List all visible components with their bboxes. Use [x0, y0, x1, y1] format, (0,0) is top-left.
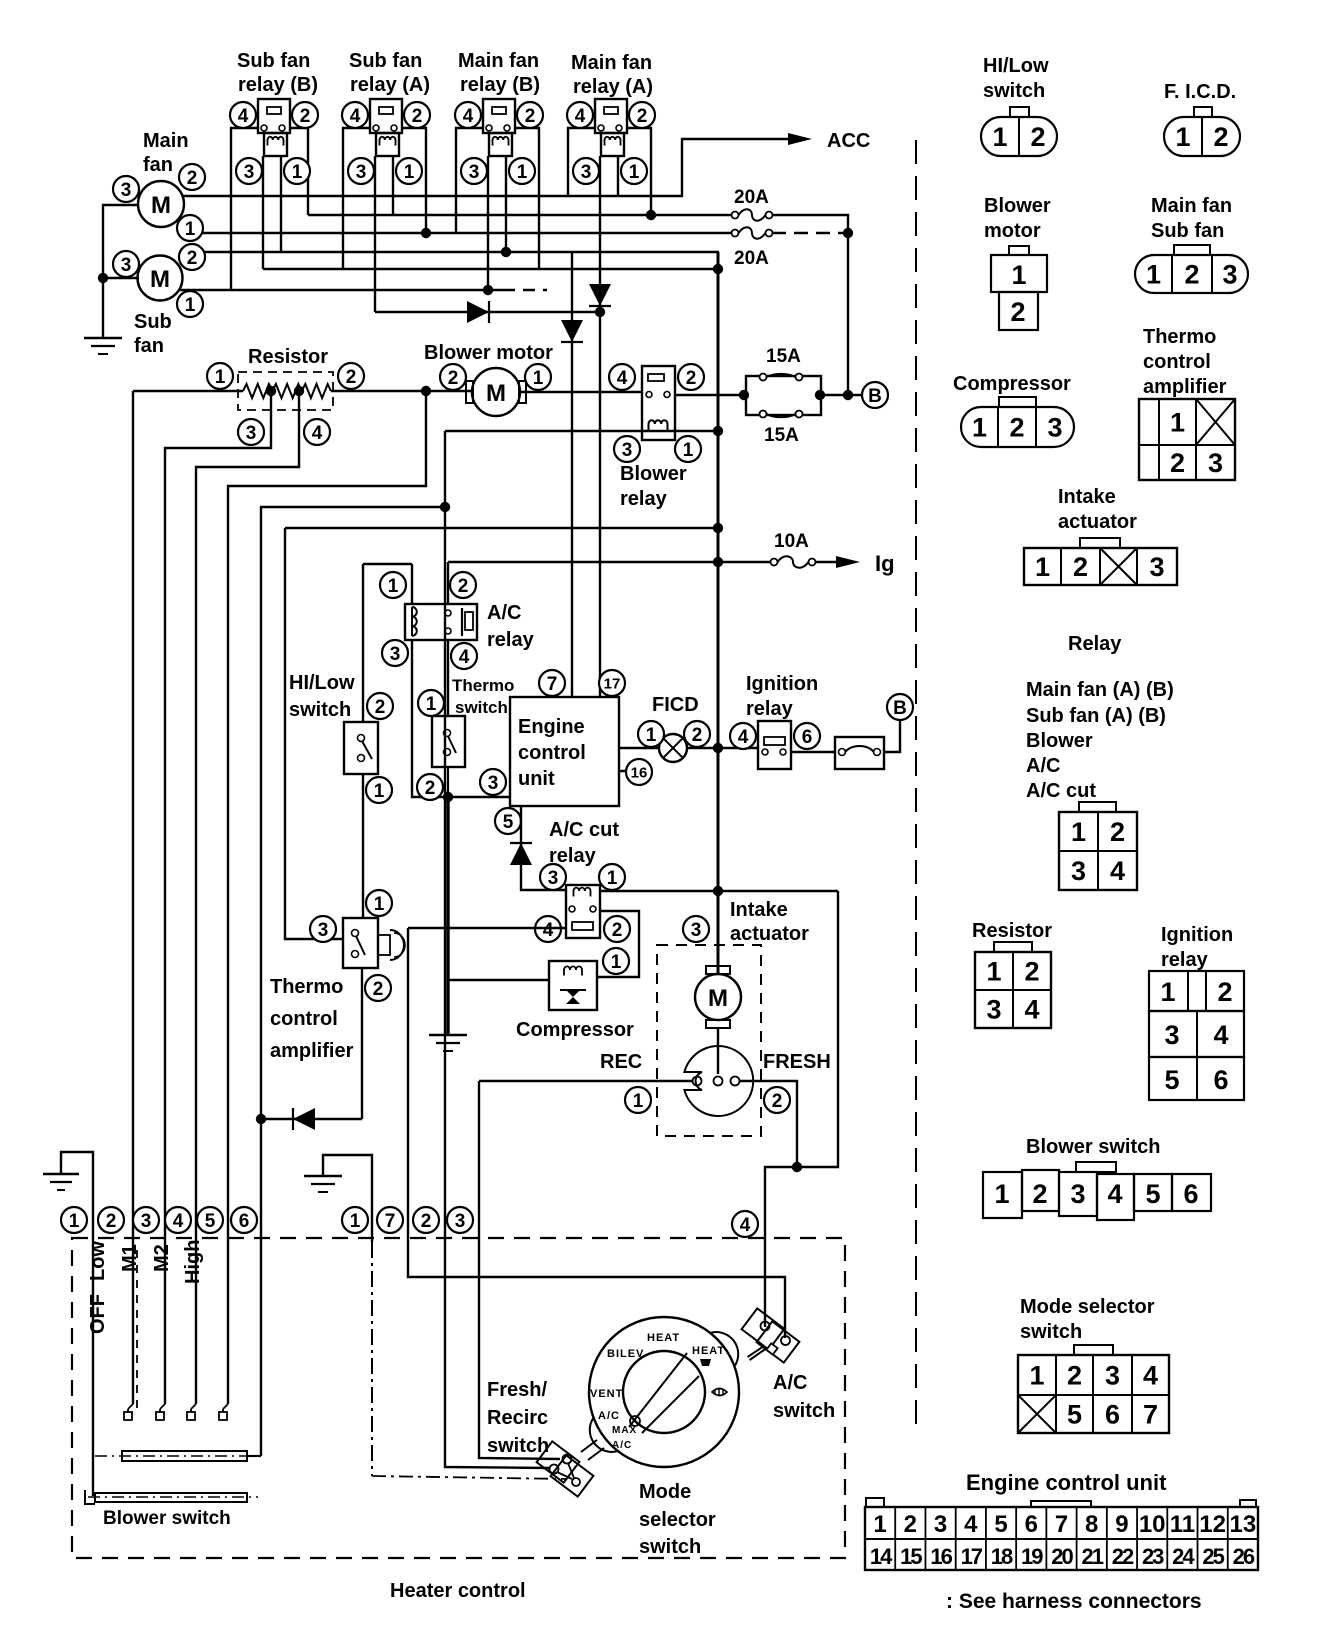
svg-text:REC: REC: [600, 1051, 642, 1073]
svg-text:3: 3: [121, 255, 132, 276]
svg-text:Blower: Blower: [620, 463, 687, 485]
svg-text:1: 1: [404, 162, 415, 183]
svg-text:1: 1: [292, 162, 303, 183]
svg-text:2: 2: [106, 1211, 117, 1232]
svg-text:actuator: actuator: [1058, 511, 1137, 533]
wire ECU to FICD: [619, 747, 659, 749]
wire thermo amp pin2 down to diode line: [361, 968, 363, 1119]
svg-text:3: 3: [1047, 413, 1062, 443]
wire Main fan relay B pin3: [487, 156, 489, 290]
demist icon: [712, 1389, 727, 1396]
svg-text:3: 3: [622, 440, 633, 461]
wire bus to relay coils: [263, 268, 718, 270]
fuse 20A upper: [732, 212, 739, 219]
svg-text:Engine control unit: Engine control unit: [966, 1470, 1167, 1495]
svg-text:Resistor: Resistor: [248, 346, 328, 368]
diode D3: [561, 320, 583, 342]
dashed OFF stub: [136, 1250, 138, 1408]
svg-text:2: 2: [1032, 1179, 1047, 1209]
svg-text:1: 1: [374, 894, 385, 915]
svg-text:FRESH: FRESH: [763, 1051, 831, 1073]
svg-text:BILEV: BILEV: [607, 1348, 644, 1360]
fusebox 15A: [746, 376, 821, 415]
svg-text:6: 6: [1213, 1065, 1228, 1095]
svg-text:15A: 15A: [764, 425, 799, 446]
svg-text:6: 6: [1105, 1400, 1120, 1430]
svg-text:16: 16: [631, 764, 648, 781]
svg-text:2: 2: [421, 1211, 432, 1232]
svg-text:Blower motor: Blower motor: [424, 342, 553, 364]
svg-text:A/C: A/C: [612, 1440, 632, 1451]
svg-text:Thermo: Thermo: [452, 676, 514, 695]
wire A/C cut relay pin1 to intake feed: [600, 890, 838, 892]
svg-text:1: 1: [69, 1211, 80, 1232]
svg-text:4: 4: [173, 1211, 184, 1232]
wire HI/Low pin1 down to thermo amp: [362, 774, 364, 918]
svg-text:ACC: ACC: [827, 130, 870, 152]
svg-text:HI/Low: HI/Low: [289, 672, 355, 694]
svg-text:HI/Low: HI/Low: [983, 55, 1049, 77]
svg-text:relay (A): relay (A): [350, 74, 430, 96]
svg-text:9: 9: [1115, 1511, 1128, 1538]
wire staircase blower relay coil line: [261, 431, 445, 1456]
wire blower relay to 15A fuses: [676, 394, 746, 396]
svg-text:1: 1: [986, 957, 1001, 987]
svg-text:Thermo: Thermo: [1143, 326, 1216, 348]
svg-text:1: 1: [1160, 977, 1175, 1007]
svg-text:Mode: Mode: [639, 1481, 691, 1503]
svg-text:7: 7: [1143, 1400, 1158, 1430]
svg-text:19: 19: [1021, 1544, 1043, 1569]
svg-text:Relay: Relay: [1068, 633, 1122, 655]
svg-text:2: 2: [1184, 260, 1199, 290]
wire HI/Low pin2 up: [362, 564, 364, 722]
svg-text:3: 3: [488, 773, 499, 794]
svg-text:OFF: OFF: [87, 1294, 109, 1334]
diode D4: [510, 843, 532, 865]
svg-text:3: 3: [244, 162, 255, 183]
svg-text:3: 3: [455, 1211, 466, 1232]
svg-text:2: 2: [1024, 957, 1039, 987]
svg-text:A/C cut: A/C cut: [1026, 780, 1096, 802]
svg-text:M: M: [486, 380, 506, 407]
svg-text:1: 1: [533, 368, 544, 389]
svg-text:1: 1: [994, 1179, 1009, 1209]
svg-text:7: 7: [547, 674, 558, 695]
svg-text:Ignition: Ignition: [1161, 924, 1233, 946]
svg-text:Thermo: Thermo: [270, 976, 343, 998]
svg-text:F. I.C.D.: F. I.C.D.: [1164, 81, 1236, 103]
svg-text:relay: relay: [746, 698, 794, 720]
wire ACC bus from Main fan pin 2: [182, 139, 788, 196]
svg-text:2: 2: [904, 1511, 917, 1538]
svg-text:22: 22: [1112, 1544, 1134, 1569]
svg-text:10: 10: [1139, 1511, 1166, 1538]
svg-text:6: 6: [239, 1211, 250, 1232]
compressor: [549, 961, 597, 1010]
resistor pin circles: [207, 363, 233, 389]
svg-text:1: 1: [972, 413, 987, 443]
svg-text:2: 2: [692, 725, 703, 746]
motor intake actuator M: [695, 974, 741, 1020]
svg-text:4: 4: [459, 647, 470, 668]
svg-text:1: 1: [683, 440, 694, 461]
wire A/C relay pin3 down to ECU pin3 line: [412, 640, 510, 797]
svg-text:A/C: A/C: [487, 602, 521, 624]
svg-text:4: 4: [1213, 1020, 1228, 1050]
svg-text:1: 1: [992, 122, 1007, 152]
svg-text:1: 1: [185, 219, 196, 240]
svg-text:Main fan: Main fan: [571, 52, 652, 74]
wire Main fan pin1 bus: [182, 232, 731, 234]
svg-text:16: 16: [930, 1544, 952, 1569]
svg-text:Compressor: Compressor: [953, 373, 1071, 395]
svg-text:3: 3: [1149, 552, 1164, 582]
relay A/C relay: [405, 604, 477, 640]
svg-text:5: 5: [503, 812, 514, 833]
wire vertical to ECU pin7 with diode: [571, 252, 573, 697]
svg-text:switch: switch: [289, 699, 351, 721]
switch A/C switch: [742, 1308, 785, 1349]
svg-text:4: 4: [543, 920, 554, 941]
connector F.I.C.D.: [1164, 117, 1240, 156]
svg-text:amplifier: amplifier: [270, 1040, 354, 1062]
svg-text:Intake: Intake: [1058, 486, 1116, 508]
svg-text:4: 4: [964, 1511, 978, 1538]
svg-text:control: control: [270, 1008, 338, 1030]
svg-text:M: M: [708, 985, 728, 1012]
svg-text:2: 2: [187, 248, 198, 269]
svg-text:2: 2: [458, 576, 469, 597]
svg-text:Compressor: Compressor: [516, 1019, 634, 1041]
svg-text:1: 1: [1011, 260, 1026, 290]
wire blower relay coil bus: [445, 430, 718, 432]
wire Main fan relay B pin4: [456, 128, 483, 233]
svg-text:Ig: Ig: [875, 551, 895, 576]
relay Blower relay: [642, 366, 675, 440]
relay Main fan relay (B): [483, 99, 515, 156]
resistor R1 element: [243, 384, 331, 398]
wire diode to vertical 5: [261, 1118, 362, 1120]
svg-text:Recirc: Recirc: [487, 1407, 548, 1429]
mode selector knob: [629, 1353, 687, 1427]
svg-text:1: 1: [1146, 260, 1161, 290]
wire thermo switch pin2 down: [447, 767, 449, 797]
wire motor to flap: [717, 1028, 719, 1074]
svg-text:A/C: A/C: [598, 1410, 620, 1422]
svg-text:Resistor: Resistor: [972, 920, 1052, 942]
svg-text:3: 3: [1208, 448, 1223, 478]
blower switch wiper bar 1: [122, 1451, 247, 1461]
svg-text:2: 2: [412, 106, 423, 127]
diode D2: [589, 284, 611, 306]
svg-text:Mode selector: Mode selector: [1020, 1296, 1155, 1318]
circled pins of top relays: [230, 102, 256, 128]
ground G4 middle: [323, 1155, 372, 1242]
svg-text:3: 3: [318, 920, 329, 941]
switch HI/Low switch: [344, 722, 378, 774]
svg-text:2: 2: [637, 106, 648, 127]
svg-text:Main fan (A) (B): Main fan (A) (B): [1026, 679, 1174, 701]
svg-text:4: 4: [1110, 856, 1125, 886]
resistor R1 dashed box: [238, 372, 333, 410]
svg-text:switch: switch: [773, 1400, 835, 1422]
mode selector lobes: [710, 1332, 738, 1366]
wire Sub fan relay B pin2: [290, 128, 308, 215]
svg-text:26: 26: [1233, 1544, 1255, 1569]
wire A/C relay pin4 down to thermo switch: [447, 640, 449, 716]
svg-text:20A: 20A: [734, 248, 769, 269]
switch ignition switch contact: [835, 737, 884, 769]
wire Sub fan relay B pin3: [262, 156, 264, 269]
wire Main fan relay A pin2: [627, 128, 651, 215]
svg-text:3: 3: [1164, 1020, 1179, 1050]
svg-text:Fresh/: Fresh/: [487, 1379, 547, 1401]
svg-text:2: 2: [300, 106, 311, 127]
svg-text:fan: fan: [134, 335, 164, 357]
ground G1: [84, 337, 122, 339]
svg-text:20: 20: [1051, 1544, 1073, 1569]
svg-text:3: 3: [548, 868, 559, 889]
svg-text:3: 3: [934, 1511, 947, 1538]
svg-text:2: 2: [346, 367, 357, 388]
wire blower motor to blower relay: [521, 391, 642, 393]
svg-text:1: 1: [1175, 122, 1190, 152]
svg-text:2: 2: [1030, 122, 1045, 152]
intake actuator dashed box: [657, 945, 761, 1136]
fuse 20A lower: [732, 230, 739, 237]
svg-text:3: 3: [141, 1211, 152, 1232]
svg-text:4: 4: [1143, 1361, 1158, 1391]
svg-text:4: 4: [238, 106, 249, 127]
relay Sub fan relay (A): [370, 99, 402, 156]
wire to compressor: [448, 979, 549, 981]
connector Blower motor: [991, 246, 1047, 330]
svg-text:3: 3: [1222, 260, 1237, 290]
svg-text:4: 4: [575, 106, 586, 127]
svg-text:M2: M2: [151, 1244, 173, 1272]
wire Sub fan relay A pin4: [343, 128, 370, 269]
svg-text:4: 4: [617, 368, 628, 389]
amplifier Thermo control amplifier: [343, 918, 405, 968]
svg-text:relay: relay: [620, 488, 668, 510]
svg-text:3: 3: [469, 162, 480, 183]
wire ECU pin16 stub: [619, 770, 647, 772]
wire intake right down: [765, 891, 838, 1327]
wire 10A bus: [448, 561, 770, 563]
svg-text:High: High: [182, 1240, 204, 1284]
svg-text:2: 2: [448, 368, 459, 389]
svg-text:17: 17: [961, 1544, 983, 1569]
svg-text:5: 5: [1067, 1400, 1082, 1430]
svg-text:12: 12: [1199, 1511, 1226, 1538]
svg-text:Sub: Sub: [134, 311, 172, 333]
svg-text:3: 3: [691, 920, 702, 941]
terminal row circles: [61, 1207, 87, 1233]
svg-text:3: 3: [1105, 1361, 1120, 1391]
svg-text:Low: Low: [87, 1241, 109, 1281]
wire A/C cut pin4 branch to A/C switch: [408, 928, 785, 1338]
motor Sub fan: [138, 256, 183, 301]
wire vertical 1 (resistor pin1) to blower switch: [132, 391, 134, 1404]
svg-text:1: 1: [1170, 408, 1185, 438]
wire A/C relay pin1 up to HI/Low line: [411, 564, 413, 604]
defrost icon: [700, 1359, 711, 1366]
wire Sub fan relay B pin1: [280, 156, 282, 252]
svg-text:Intake: Intake: [730, 899, 788, 921]
svg-text:1: 1: [1035, 552, 1050, 582]
svg-text:M: M: [151, 192, 171, 219]
svg-text:4: 4: [1107, 1179, 1122, 1209]
svg-text:18: 18: [991, 1544, 1013, 1569]
svg-text:8: 8: [1085, 1511, 1098, 1538]
svg-text:1: 1: [215, 367, 226, 388]
svg-text:1: 1: [1071, 817, 1086, 847]
separator dashed line: [915, 140, 917, 1433]
wire Main fan pin3 / Sub fan pin3 to ground: [103, 205, 139, 338]
svg-text:Main fan: Main fan: [458, 50, 539, 72]
svg-text:Engine: Engine: [518, 716, 585, 738]
svg-text:fan: fan: [143, 154, 173, 176]
connector Compressor: [961, 407, 1074, 447]
wire fuse feed bus 20A upper: [308, 214, 731, 216]
svg-text:5: 5: [205, 1211, 216, 1232]
svg-text:motor: motor: [984, 220, 1041, 242]
svg-text:1: 1: [629, 162, 640, 183]
svg-text:1: 1: [611, 952, 622, 973]
svg-text:2: 2: [1010, 297, 1025, 327]
svg-text:FICD: FICD: [652, 694, 699, 716]
mode selector switch dial: [589, 1317, 739, 1467]
svg-text:1: 1: [517, 162, 528, 183]
connector Mode selector switch: [1074, 1345, 1113, 1355]
svg-text:2: 2: [612, 920, 623, 941]
wire A/C relay pin2 up to 10A bus: [447, 562, 449, 604]
svg-text:relay (B): relay (B): [460, 74, 540, 96]
svg-text:13: 13: [1230, 1511, 1257, 1538]
svg-text:6: 6: [1183, 1179, 1198, 1209]
svg-text:11: 11: [1170, 1511, 1195, 1538]
svg-text:Ignition: Ignition: [746, 673, 818, 695]
svg-text:1: 1: [607, 868, 618, 889]
svg-text:5: 5: [1145, 1179, 1160, 1209]
svg-text:3: 3: [121, 180, 132, 201]
wire main vertical feed: [717, 252, 720, 974]
wire from 20A lower to node: [772, 232, 848, 234]
svg-text:15: 15: [900, 1544, 922, 1569]
wire staircase resistor pin3: [165, 391, 271, 1404]
svg-text:switch: switch: [983, 80, 1045, 102]
wire vertical to Fresh/Recirc switch: [445, 507, 550, 1468]
svg-text:switch: switch: [639, 1536, 701, 1558]
connector Engine control unit: [865, 1498, 1258, 1570]
svg-text:4: 4: [463, 106, 474, 127]
motor Main fan: [138, 181, 184, 227]
lamp FICD: [659, 734, 687, 762]
arrow Ig: [836, 556, 860, 568]
svg-text:2: 2: [1009, 413, 1024, 443]
svg-text:Blower switch: Blower switch: [1026, 1136, 1160, 1158]
svg-text:relay: relay: [487, 629, 535, 651]
svg-text:2: 2: [1213, 122, 1228, 152]
svg-text:M: M: [150, 266, 170, 293]
svg-text:1: 1: [350, 1211, 361, 1232]
svg-text:25: 25: [1202, 1544, 1224, 1569]
svg-text:7: 7: [1055, 1511, 1068, 1538]
wire Sub fan pin1 bus: [180, 289, 503, 291]
diode D5: [293, 1108, 315, 1130]
motor Blower motor: [472, 368, 520, 416]
svg-text:7: 7: [385, 1211, 396, 1232]
svg-text:2: 2: [1110, 817, 1125, 847]
svg-text:Sub fan: Sub fan: [349, 50, 422, 72]
svg-text:switch: switch: [1020, 1321, 1082, 1343]
wire REC branch down to Fresh/Recirc switch: [479, 1081, 560, 1459]
svg-text:3: 3: [390, 644, 401, 665]
connector Main fan Sub fan: [1135, 255, 1248, 293]
svg-text:17: 17: [604, 675, 621, 692]
svg-text:3: 3: [986, 995, 1001, 1025]
svg-text:2: 2: [1067, 1361, 1082, 1391]
wire staircase resistor pin4: [196, 391, 299, 1404]
svg-text:20A: 20A: [734, 187, 769, 208]
wire Sub fan relay A pin2: [402, 128, 426, 233]
svg-text:relay: relay: [1161, 949, 1209, 971]
svg-text:actuator: actuator: [730, 923, 809, 945]
terminal B: [862, 382, 888, 408]
svg-text:15A: 15A: [766, 346, 801, 367]
svg-text:control: control: [1143, 351, 1211, 373]
svg-text:4: 4: [312, 423, 323, 444]
svg-text:A/C cut: A/C cut: [549, 819, 619, 841]
svg-text:3: 3: [356, 162, 367, 183]
fuse 10A: [771, 559, 778, 566]
wire Sub fan relay A pin1: [392, 156, 394, 215]
svg-text:1: 1: [426, 694, 437, 715]
wire resistor pin2 to blower motor: [331, 390, 474, 392]
svg-text:2: 2: [525, 106, 536, 127]
wire to terminal B2: [884, 720, 900, 752]
svg-text:HEAT: HEAT: [647, 1332, 680, 1344]
blower switch contacts: [128, 1404, 133, 1409]
wire FRESH line: [740, 1081, 797, 1167]
switch Fresh/Recirc switch: [537, 1441, 580, 1482]
svg-text:unit: unit: [518, 768, 555, 790]
svg-text:control: control: [518, 742, 586, 764]
svg-text:1: 1: [374, 781, 385, 802]
svg-text:4: 4: [740, 1215, 751, 1236]
heater control dashed enclosure: [72, 1238, 845, 1558]
svg-text:VENT: VENT: [590, 1388, 623, 1400]
wire HI/Low to A/C relay pin1: [363, 563, 412, 565]
connector Relay 4-pin: [1079, 802, 1116, 812]
svg-text:3: 3: [581, 162, 592, 183]
blower switch wiper bar 2: [95, 1493, 247, 1502]
A/C switch lever: [748, 1346, 765, 1357]
wire Sub fan pin2 bus: [180, 251, 719, 253]
terminal B: [887, 694, 913, 720]
wire resistor pin1 to left vertical: [133, 390, 243, 392]
intake actuator flap disc: [684, 1046, 753, 1116]
connector Blower switch: [983, 1162, 1211, 1220]
svg-text:23: 23: [1142, 1544, 1164, 1569]
ground G2 compressor: [429, 1034, 467, 1036]
svg-text:MAX: MAX: [612, 1425, 637, 1436]
svg-text:B: B: [893, 698, 907, 719]
wire A/C cut relay pin2 to compressor: [597, 911, 639, 977]
svg-text:2: 2: [187, 168, 198, 189]
ground G3 left: [61, 1152, 93, 1496]
